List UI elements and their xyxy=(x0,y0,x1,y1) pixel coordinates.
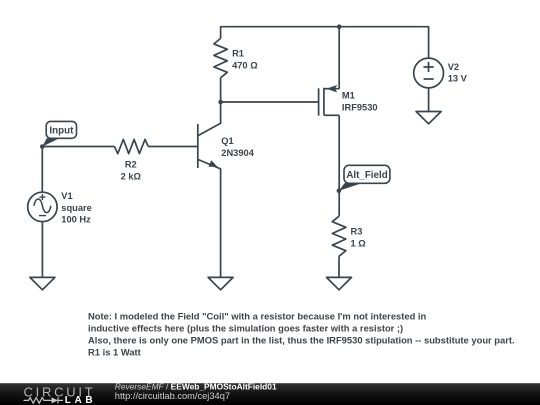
label R3 value xyxy=(351,227,367,249)
wire M1 drain down through Alt_Field node to R3 xyxy=(338,115,340,216)
node top rail M1 xyxy=(337,24,342,29)
flag tail Alt_Field xyxy=(339,183,362,191)
label R2 value xyxy=(121,160,142,182)
svg-text:100 Hz: 100 Hz xyxy=(61,214,91,224)
node input xyxy=(40,144,45,149)
svg-text:inductive effects here (plus t: inductive effects here (plus the simulat… xyxy=(88,323,403,334)
svg-text:LAB: LAB xyxy=(65,395,96,405)
flag tail Input xyxy=(42,138,59,147)
svg-text:13 V: 13 V xyxy=(448,74,468,84)
svg-text:R3: R3 xyxy=(351,227,363,237)
svg-text:M1: M1 xyxy=(342,91,355,101)
arrow emitter Q1 xyxy=(209,160,218,167)
resistor R3 xyxy=(332,216,346,256)
svg-text:V1: V1 xyxy=(61,191,72,201)
svg-text:Q1: Q1 xyxy=(221,136,233,146)
ground under R3 xyxy=(327,277,352,289)
resistor R2 xyxy=(114,139,148,153)
ground under Q1 xyxy=(208,277,233,289)
arrow source M1 xyxy=(326,85,338,93)
wire V1 bottom to ground xyxy=(41,222,43,278)
svg-text:http://circuitlab.com/cej34q7: http://circuitlab.com/cej34q7 xyxy=(115,391,230,401)
label Q1 value xyxy=(221,136,254,158)
svg-text:Input: Input xyxy=(49,126,74,137)
logo wire with resistor and diode xyxy=(24,397,64,403)
svg-text:V2: V2 xyxy=(448,62,459,72)
label M1 value xyxy=(342,91,378,113)
note text xyxy=(88,311,515,358)
svg-text:2 kΩ: 2 kΩ xyxy=(121,171,142,181)
transistor M1 xyxy=(318,88,320,115)
svg-text:IRF9530: IRF9530 xyxy=(342,103,378,113)
wire R1 bottom to node and gate wire to M1 xyxy=(221,78,319,102)
flag Input xyxy=(46,121,76,138)
voltage source V2 xyxy=(414,58,444,88)
label V1 value xyxy=(61,191,92,224)
node R1 bottom junction xyxy=(218,100,223,105)
voltage source V1 xyxy=(28,192,57,221)
wire top rail R1 to V2 xyxy=(221,27,429,58)
svg-text:R2: R2 xyxy=(125,160,137,170)
ground under V1 xyxy=(30,277,55,289)
svg-text:Note: I modeled the Field "Coi: Note: I modeled the Field "Coil" with a … xyxy=(88,311,427,322)
resistor R1 xyxy=(214,38,227,77)
wire R2 to Q1 base xyxy=(148,146,198,148)
svg-text:ReverseEMF / EEWeb_PMOStoAltFi: ReverseEMF / EEWeb_PMOStoAltField01 xyxy=(115,381,277,391)
transistor Q1 xyxy=(197,124,199,168)
ground under V2 xyxy=(416,112,441,124)
wire M1 source up to rail xyxy=(338,27,340,89)
svg-text:R1 is 1 Watt: R1 is 1 Watt xyxy=(88,347,141,358)
wire R3 to ground xyxy=(338,256,340,277)
flag Alt_Field xyxy=(344,165,390,183)
svg-text:Alt_Field: Alt_Field xyxy=(346,170,387,181)
footer bar xyxy=(0,383,540,405)
svg-text:square: square xyxy=(61,203,92,213)
node Alt_Field xyxy=(337,189,342,194)
label V2 value xyxy=(448,62,468,84)
svg-text:470 Ω: 470 Ω xyxy=(232,60,258,70)
svg-text:Also, there is only one PMOS p: Also, there is only one PMOS part in the… xyxy=(88,335,515,346)
svg-text:R1: R1 xyxy=(232,49,244,59)
svg-text:2N3904: 2N3904 xyxy=(221,148,254,158)
wire V2 bottom to ground xyxy=(428,88,430,112)
svg-text:1 Ω: 1 Ω xyxy=(351,239,367,249)
wire input node to R2 and down to V1 xyxy=(42,147,114,193)
label R1 value xyxy=(232,49,258,71)
